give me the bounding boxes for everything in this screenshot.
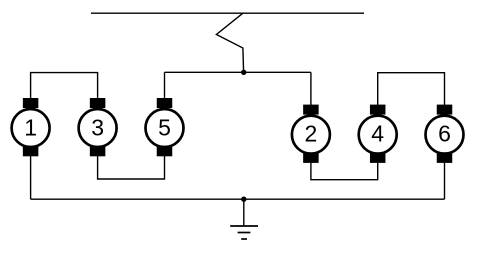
- wire: motor 6 bottom terminal down to ground bus: [444, 162, 446, 199]
- motor M1: [12, 98, 50, 156]
- wire: stub down to motor 5 top terminal: [164, 72, 166, 99]
- wire: bracket joining motor 4 and motor 6 top terminals: [378, 73, 445, 106]
- svg-text:1: 1: [24, 115, 37, 141]
- zigzag drop wire from supply rail to node A: [216, 13, 243, 72]
- svg-text:5: 5: [158, 115, 171, 141]
- supply rail (top horizontal line): [91, 12, 364, 14]
- svg-text:3: 3: [91, 115, 104, 141]
- wire: bracket joining motor 1 and motor 3 top terminals: [31, 73, 98, 99]
- node B (junction dot on ground bus): [241, 197, 246, 202]
- ground: [230, 226, 258, 239]
- wire: ground bus (bottom horizontal line): [31, 198, 445, 200]
- motor M4: [359, 105, 397, 163]
- svg-text:2: 2: [305, 121, 318, 147]
- wire: bracket joining motor 2 and motor 4 bottom terminals: [311, 162, 378, 180]
- wire: motor 1 bottom terminal down to ground bus: [30, 155, 32, 199]
- motor M5: [146, 98, 184, 156]
- svg-text:4: 4: [371, 121, 384, 147]
- wire: middle bus between motor 5 and motor 2 tops: [165, 71, 311, 73]
- wire: stub down to motor 2 top terminal: [310, 72, 312, 106]
- svg-text:6: 6: [438, 121, 451, 147]
- motor M2: [292, 105, 330, 163]
- motor M3: [79, 98, 117, 156]
- wire: bracket joining motor 3 and motor 5 bottom terminals: [98, 155, 165, 179]
- motor M6: [426, 105, 464, 163]
- wire: stub from node B down to ground symbol: [243, 199, 245, 226]
- node A (junction dot on middle bus): [241, 70, 246, 75]
